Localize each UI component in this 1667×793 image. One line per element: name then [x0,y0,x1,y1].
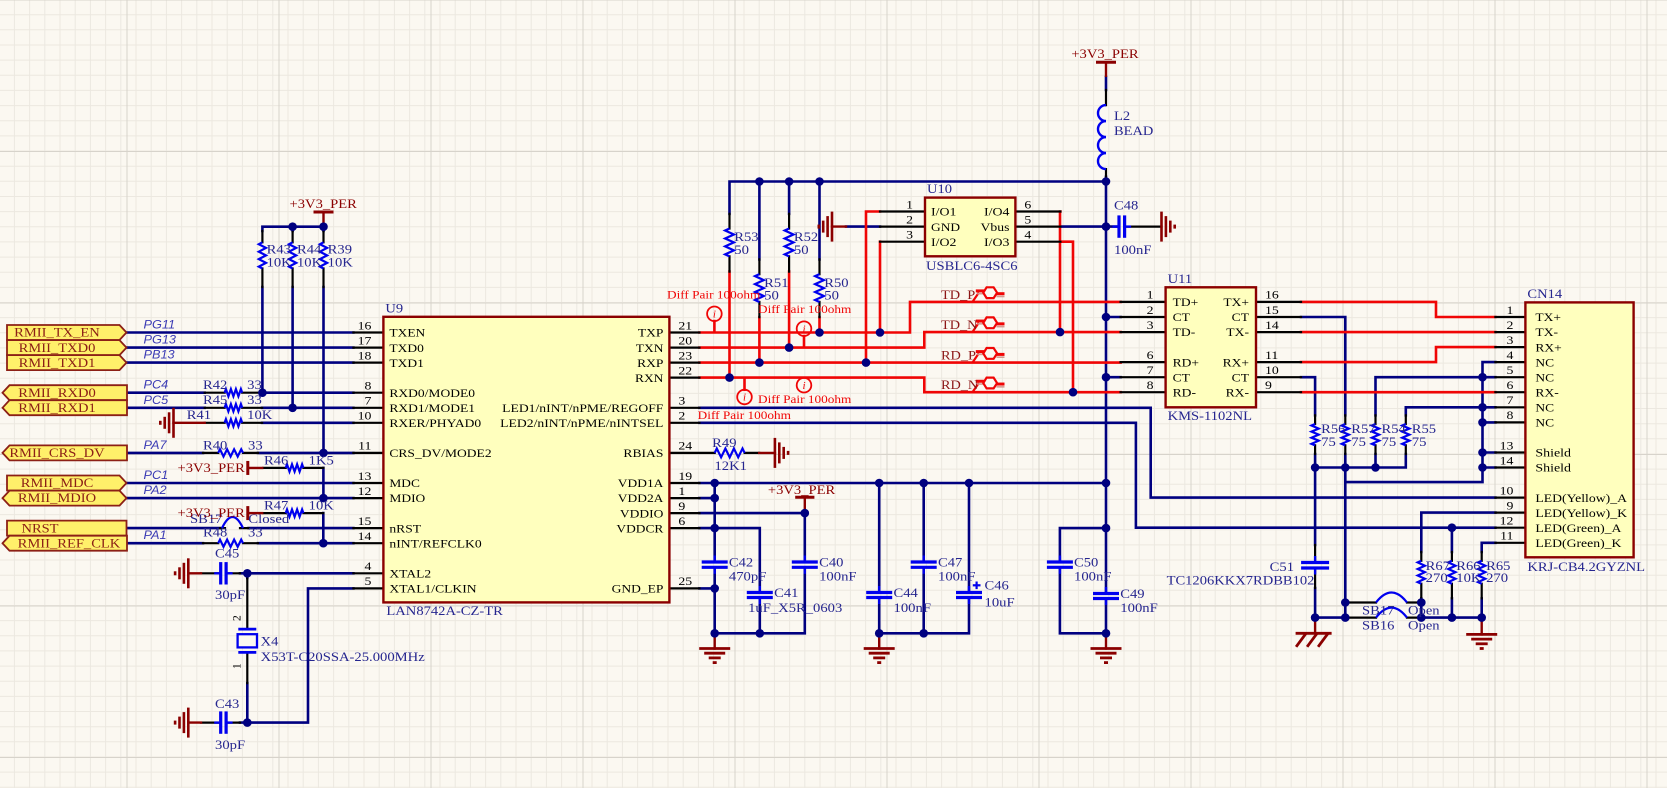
svg-text:1: 1 [232,663,244,669]
svg-text:KRJ-CB4.2GYZNL: KRJ-CB4.2GYZNL [1527,559,1645,574]
svg-text:14: 14 [358,531,372,543]
svg-text:30pF: 30pF [215,737,245,752]
svg-text:RMII_CRS_DV: RMII_CRS_DV [9,445,105,460]
svg-text:Diff Pair 100ohm: Diff Pair 100ohm [758,302,852,316]
svg-text:25: 25 [678,576,692,588]
svg-text:R46: R46 [264,452,289,467]
svg-text:11: 11 [1500,531,1514,543]
svg-text:TX+: TX+ [1535,312,1561,324]
svg-text:13: 13 [358,471,372,483]
svg-text:CT: CT [1173,312,1190,324]
svg-text:R42: R42 [203,377,227,392]
svg-text:5: 5 [1024,214,1031,226]
svg-text:R45: R45 [203,392,227,407]
svg-text:TX-: TX- [1226,327,1249,339]
svg-text:10: 10 [358,411,372,423]
svg-text:50: 50 [794,242,809,257]
svg-text:10K: 10K [309,498,335,513]
svg-text:C49: C49 [1120,586,1144,601]
svg-text:CT: CT [1173,372,1190,384]
svg-text:RXD0/MODE0: RXD0/MODE0 [389,388,475,400]
svg-text:LED(Yellow)_A: LED(Yellow)_A [1535,493,1627,505]
svg-text:MDC: MDC [389,478,420,490]
svg-text:KMS-1102NL: KMS-1102NL [1168,408,1252,423]
svg-text:TD+: TD+ [1173,297,1199,309]
svg-text:SB16: SB16 [1362,618,1395,633]
svg-text:3: 3 [1147,320,1154,332]
svg-text:I/O4: I/O4 [984,207,1010,219]
svg-text:21: 21 [678,320,692,332]
svg-text:Shield: Shield [1535,463,1571,475]
svg-text:9: 9 [678,501,685,513]
svg-text:33: 33 [248,437,263,452]
svg-text:1: 1 [1147,290,1154,302]
svg-text:PC5: PC5 [144,393,169,407]
svg-text:C41: C41 [774,585,798,600]
svg-text:RMII_RXD0: RMII_RXD0 [18,385,96,400]
svg-text:4: 4 [1024,230,1031,242]
svg-text:11: 11 [1265,350,1279,362]
svg-text:Diff Pair 100ohm: Diff Pair 100ohm [758,392,852,406]
svg-text:PC4: PC4 [144,378,169,392]
svg-text:75: 75 [1412,434,1427,449]
svg-text:Diff Pair 100ohm: Diff Pair 100ohm [698,408,792,422]
svg-text:RD_P: RD_P [941,349,976,363]
svg-text:BEAD: BEAD [1114,123,1153,138]
svg-text:I/O2: I/O2 [931,237,957,249]
svg-text:LED1/nINT/nPME/REGOFF: LED1/nINT/nPME/REGOFF [502,403,663,415]
svg-text:TXN: TXN [636,343,664,355]
svg-text:LED(Yellow)_K: LED(Yellow)_K [1535,508,1627,520]
svg-text:20: 20 [678,335,692,347]
svg-text:i: i [802,323,805,335]
svg-text:5: 5 [365,576,372,588]
svg-text:XTAL2: XTAL2 [389,569,431,581]
svg-text:RXER/PHYAD0: RXER/PHYAD0 [389,418,481,430]
svg-text:14: 14 [1265,320,1279,332]
svg-text:10uF: 10uF [985,595,1015,610]
svg-text:100nF: 100nF [894,600,932,615]
svg-text:23: 23 [678,350,692,362]
svg-text:270: 270 [1486,570,1508,585]
svg-text:10K: 10K [267,255,293,270]
svg-text:PA7: PA7 [144,438,168,452]
svg-text:+3V3_PER: +3V3_PER [178,505,246,520]
svg-text:C43: C43 [215,696,239,711]
svg-text:X4: X4 [261,634,279,649]
svg-text:VDD2A: VDD2A [618,493,664,505]
svg-text:TC1206KKX7RDBB102: TC1206KKX7RDBB102 [1167,573,1315,588]
svg-text:14: 14 [1500,455,1514,467]
svg-text:VDDCR: VDDCR [616,523,663,535]
svg-text:USBLC6-4SC6: USBLC6-4SC6 [926,258,1018,273]
svg-text:RD_N: RD_N [941,378,978,392]
svg-text:+3V3_PER: +3V3_PER [1071,46,1139,61]
svg-text:75: 75 [1321,434,1336,449]
svg-text:33: 33 [248,525,263,540]
svg-text:C40: C40 [819,554,843,569]
svg-text:100nF: 100nF [1120,600,1158,615]
svg-text:10K: 10K [297,255,323,270]
svg-text:NC: NC [1535,372,1554,384]
svg-text:18: 18 [358,350,372,362]
svg-text:RMII_MDC: RMII_MDC [21,475,94,490]
svg-text:5: 5 [1507,365,1514,377]
svg-text:TX+: TX+ [1223,297,1249,309]
svg-text:C42: C42 [729,554,753,569]
svg-text:i: i [802,380,805,392]
svg-text:L2: L2 [1114,108,1130,123]
svg-text:6: 6 [1507,380,1514,392]
svg-text:C47: C47 [938,554,963,569]
svg-text:100nF: 100nF [1074,568,1112,583]
svg-text:RMII_REF_CLK: RMII_REF_CLK [18,535,121,550]
svg-text:2: 2 [1147,305,1154,317]
svg-text:RXD1/MODE1: RXD1/MODE1 [389,403,475,415]
svg-text:Open: Open [1408,603,1440,618]
svg-text:RX-: RX- [1535,387,1559,399]
svg-text:1: 1 [1507,305,1514,317]
svg-text:7: 7 [1507,395,1514,407]
svg-text:CT: CT [1232,312,1249,324]
svg-text:GND_EP: GND_EP [612,584,664,596]
svg-text:NC: NC [1535,403,1554,415]
svg-text:TD_P: TD_P [941,288,976,302]
svg-text:RBIAS: RBIAS [623,448,663,460]
svg-text:RMII_RXD1: RMII_RXD1 [18,400,96,415]
svg-text:NC: NC [1535,357,1554,369]
svg-text:9: 9 [1265,380,1272,392]
svg-text:17: 17 [358,335,372,347]
svg-text:RMII_TX_EN: RMII_TX_EN [14,325,100,340]
svg-text:TD-: TD- [1173,327,1196,339]
svg-text:PB13: PB13 [144,348,175,362]
svg-text:RXP: RXP [637,358,663,370]
svg-text:50: 50 [764,288,779,303]
svg-text:R40: R40 [203,437,227,452]
svg-text:U10: U10 [927,181,952,196]
svg-text:NRST: NRST [22,520,59,535]
svg-text:TXP: TXP [638,328,664,340]
svg-text:100nF: 100nF [1114,242,1152,257]
svg-text:VDDIO: VDDIO [620,508,664,520]
svg-text:33: 33 [247,377,262,392]
svg-text:C50: C50 [1074,554,1098,569]
svg-text:LAN8742A-CZ-TR: LAN8742A-CZ-TR [386,603,503,618]
svg-text:10K: 10K [247,407,273,422]
svg-text:+3V3_PER: +3V3_PER [768,482,836,497]
svg-text:33: 33 [247,392,262,407]
svg-text:10: 10 [1500,485,1514,497]
svg-text:10K: 10K [328,255,354,270]
svg-text:TX-: TX- [1535,327,1558,339]
svg-text:NC: NC [1535,418,1554,430]
svg-text:XTAL1/CLKIN: XTAL1/CLKIN [389,584,477,596]
svg-text:11: 11 [358,441,372,453]
svg-text:RX+: RX+ [1223,357,1249,369]
svg-text:PG11: PG11 [144,318,176,332]
svg-text:13: 13 [1500,440,1514,452]
svg-text:3: 3 [1507,335,1514,347]
svg-text:10: 10 [1265,365,1279,377]
svg-text:100nF: 100nF [819,568,857,583]
svg-text:75: 75 [1351,434,1366,449]
svg-text:RD-: RD- [1173,387,1197,399]
svg-text:12K1: 12K1 [715,458,747,473]
svg-text:10K: 10K [1456,570,1482,585]
svg-text:RMII_MDIO: RMII_MDIO [18,490,96,505]
svg-text:2: 2 [678,411,685,423]
svg-text:VDD1A: VDD1A [618,478,664,490]
svg-text:C46: C46 [985,578,1010,593]
svg-text:i: i [743,392,746,404]
svg-text:470pF: 470pF [729,568,767,583]
svg-text:100nF: 100nF [938,568,976,583]
svg-text:I/O3: I/O3 [984,237,1010,249]
svg-text:8: 8 [365,381,372,393]
svg-text:R41: R41 [187,407,211,422]
svg-text:Diff Pair 100ohm: Diff Pair 100ohm [667,288,761,302]
svg-text:C45: C45 [215,545,239,560]
svg-text:1K5: 1K5 [309,452,334,467]
svg-text:Shield: Shield [1535,448,1571,460]
svg-text:2: 2 [232,615,244,621]
svg-text:+3V3_PER: +3V3_PER [290,196,358,211]
svg-text:TXD0: TXD0 [389,343,424,355]
svg-text:8: 8 [1147,380,1154,392]
svg-text:PA1: PA1 [144,528,167,542]
svg-text:R48: R48 [203,525,227,540]
svg-text:i: i [713,308,716,320]
svg-text:Open: Open [1408,618,1440,633]
svg-text:RMII_TXD0: RMII_TXD0 [19,340,96,355]
svg-text:50: 50 [824,288,839,303]
svg-text:6: 6 [1024,199,1031,211]
svg-text:270: 270 [1426,570,1448,585]
svg-text:50: 50 [734,242,749,257]
svg-text:6: 6 [678,516,685,528]
svg-text:19: 19 [678,471,692,483]
svg-text:LED(Green)_K: LED(Green)_K [1535,538,1622,550]
svg-text:U9: U9 [385,300,403,315]
svg-text:R49: R49 [712,435,736,450]
svg-text:PC1: PC1 [144,468,169,482]
svg-text:C48: C48 [1114,197,1138,212]
svg-text:SB17: SB17 [1362,603,1395,618]
svg-text:8: 8 [1507,410,1514,422]
svg-text:CN14: CN14 [1527,286,1562,301]
svg-text:15: 15 [358,516,372,528]
svg-text:R47: R47 [264,498,289,513]
svg-text:3: 3 [906,230,913,242]
svg-text:7: 7 [365,396,372,408]
svg-text:LED(Green)_A: LED(Green)_A [1535,523,1622,535]
svg-text:RD+: RD+ [1173,357,1199,369]
svg-text:I/O1: I/O1 [931,207,957,219]
svg-text:16: 16 [1265,290,1279,302]
svg-text:TD_N: TD_N [941,318,978,332]
svg-text:CT: CT [1232,372,1249,384]
svg-text:U11: U11 [1168,271,1193,286]
svg-text:22: 22 [678,365,692,377]
svg-text:TXD1: TXD1 [389,358,424,370]
svg-text:12: 12 [1500,516,1514,528]
svg-text:RMII_TXD1: RMII_TXD1 [19,355,96,370]
svg-text:PG13: PG13 [144,333,177,347]
svg-text:MDIO: MDIO [389,493,425,505]
svg-text:GND: GND [931,222,960,234]
svg-text:9: 9 [1507,500,1514,512]
svg-text:X53T-C20SSA-25.000MHz: X53T-C20SSA-25.000MHz [261,649,425,664]
svg-text:24: 24 [678,441,692,453]
svg-text:16: 16 [358,320,372,332]
svg-text:RX-: RX- [1226,387,1250,399]
svg-text:15: 15 [1265,305,1279,317]
svg-text:1: 1 [906,199,913,211]
svg-text:Vbus: Vbus [981,222,1011,234]
svg-text:RXN: RXN [635,373,664,385]
svg-text:PA2: PA2 [144,483,167,497]
svg-text:TXEN: TXEN [389,328,426,340]
svg-text:7: 7 [1147,365,1154,377]
svg-text:2: 2 [1507,320,1514,332]
svg-text:1uF_X5R_0603: 1uF_X5R_0603 [748,600,842,615]
svg-text:nINT/REFCLK0: nINT/REFCLK0 [389,538,482,550]
svg-text:6: 6 [1147,350,1154,362]
svg-text:75: 75 [1382,434,1397,449]
svg-text:30pF: 30pF [215,587,245,602]
svg-text:12: 12 [358,486,372,498]
svg-text:3: 3 [678,396,685,408]
svg-text:LED2/nINT/nPME/nINTSEL: LED2/nINT/nPME/nINTSEL [500,418,663,430]
svg-text:C44: C44 [894,585,919,600]
svg-text:+3V3_PER: +3V3_PER [178,460,246,475]
svg-text:RX+: RX+ [1535,342,1561,354]
svg-text:1: 1 [678,486,685,498]
svg-text:CRS_DV/MODE2: CRS_DV/MODE2 [389,448,491,460]
svg-text:2: 2 [906,214,913,226]
svg-text:nRST: nRST [389,523,421,535]
svg-text:4: 4 [365,561,372,573]
svg-text:4: 4 [1507,350,1514,362]
